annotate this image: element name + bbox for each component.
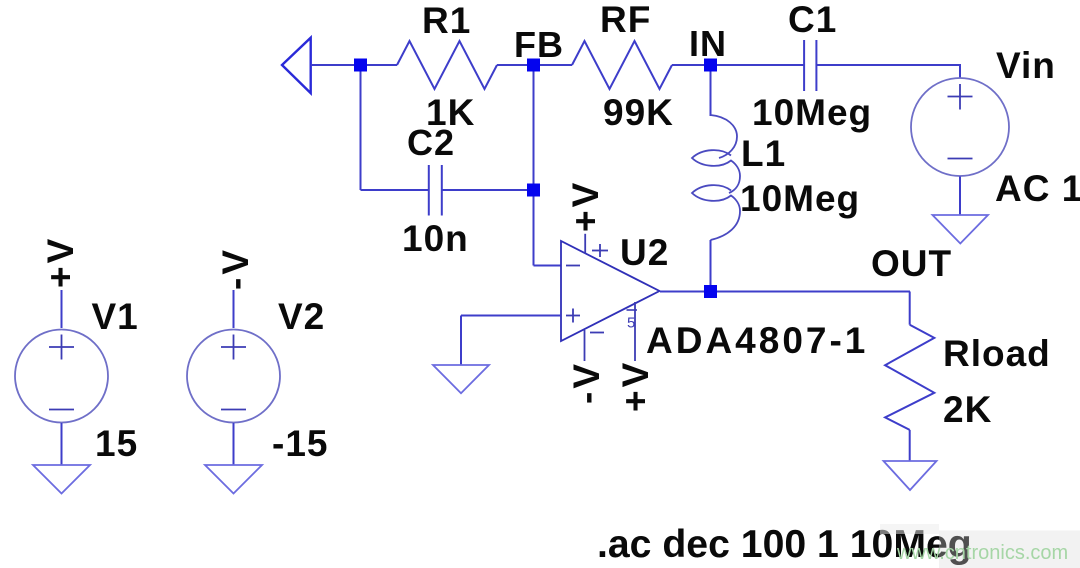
value 1K [426, 92, 475, 133]
label C1 [788, 0, 837, 40]
value AC 1 [995, 168, 1080, 209]
svg-text:-15: -15 [272, 423, 328, 464]
watermark text [896, 542, 1068, 564]
svg-text:IN: IN [689, 23, 727, 64]
op-amp PD pin 5 [634, 302, 636, 361]
value 2K [943, 389, 992, 430]
wire inverting input [534, 265, 562, 267]
label C2 [407, 122, 455, 163]
svg-text:C1: C1 [788, 0, 837, 40]
wire [711, 291, 911, 293]
wire [360, 71, 362, 190]
value 10n [402, 218, 469, 259]
svg-text:15: 15 [95, 423, 138, 464]
wire [497, 64, 534, 66]
spice directive .ac dec 100 1 10Meg [597, 523, 972, 566]
svg-text:99K: 99K [603, 92, 674, 133]
value 10Meg C1 [752, 92, 872, 133]
ground V1 [33, 465, 90, 494]
svg-text:www.cntronics.com: www.cntronics.com [896, 542, 1068, 564]
op-amp V- pin minus mark [590, 332, 604, 334]
wire [361, 64, 398, 66]
label IN [689, 23, 727, 64]
capacitor C1 [804, 40, 816, 91]
net label V- below op-amp [566, 361, 607, 404]
resistor Rload [885, 325, 934, 430]
wire output [660, 291, 711, 293]
node junction left [354, 59, 367, 72]
wire [361, 189, 429, 191]
svg-text:U2: U2 [620, 232, 669, 273]
svg-text:10Meg: 10Meg [740, 178, 860, 219]
ground Rload [884, 461, 937, 490]
ground Vin [933, 215, 989, 244]
op-amp V+ pin plus mark [592, 244, 608, 257]
voltage source Vin [911, 78, 1009, 176]
label Vin [996, 45, 1056, 86]
node C2 junction [527, 184, 540, 197]
net label V+ on V1 [40, 236, 81, 288]
inductor L1 [692, 115, 740, 240]
svg-text:R1: R1 [422, 0, 471, 41]
svg-text:2K: 2K [943, 389, 992, 430]
watermark background [880, 524, 1080, 568]
value 99K [603, 92, 674, 133]
svg-text:-V: -V [566, 361, 607, 404]
label V2 [278, 296, 325, 337]
svg-text:-V: -V [215, 247, 256, 290]
op-amp V- pin [584, 330, 586, 361]
svg-text:Rload: Rload [943, 333, 1051, 374]
wire [442, 189, 534, 191]
value 10Meg L1 [740, 178, 860, 219]
wire [534, 64, 573, 66]
svg-text:Vin: Vin [996, 45, 1056, 86]
svg-text:10n: 10n [402, 218, 469, 259]
ground arrow left (net 0) [282, 38, 311, 93]
op-amp V+ pin [584, 234, 586, 254]
svg-text:+V: +V [40, 236, 81, 288]
wire [61, 423, 63, 465]
wire [959, 64, 961, 78]
op-amp plus input mark [566, 309, 580, 323]
wire [233, 423, 235, 465]
wire [909, 430, 911, 461]
capacitor C2 [429, 165, 442, 216]
wire [311, 64, 361, 66]
wire [460, 316, 462, 366]
svg-text:+V: +V [615, 360, 656, 412]
wire L1 bottom [710, 240, 712, 292]
label OUT [871, 243, 952, 284]
label FB [514, 24, 564, 65]
wire L1 top [710, 71, 712, 116]
wire [61, 290, 63, 328]
wire [672, 64, 711, 66]
node OUT junction [704, 285, 717, 298]
node IN [704, 59, 717, 72]
wire [233, 290, 235, 328]
wire [959, 177, 961, 216]
voltage source V2 [187, 330, 280, 423]
value -15 [272, 423, 328, 464]
svg-text:AC 1: AC 1 [995, 168, 1080, 209]
resistor RF [572, 41, 672, 89]
ground V2 [205, 465, 262, 494]
op-amp U2 [561, 241, 660, 341]
node FB [527, 59, 540, 72]
svg-text:OUT: OUT [871, 243, 952, 284]
op-amp minus input mark [566, 265, 580, 267]
wire FB vertical [533, 71, 535, 266]
label V1 [92, 296, 139, 337]
svg-text:V1: V1 [92, 296, 139, 337]
svg-text:RF: RF [600, 0, 651, 40]
svg-text:L1: L1 [741, 133, 786, 174]
svg-text:ADA4807-1: ADA4807-1 [646, 320, 868, 361]
svg-text:+V: +V [565, 180, 606, 232]
voltage source V1 [15, 330, 108, 423]
svg-text:5: 5 [627, 315, 635, 332]
label RF [600, 0, 651, 40]
svg-text:C2: C2 [407, 122, 455, 163]
label ADA4807-1 [646, 320, 868, 361]
wire [711, 64, 805, 66]
label Rload [943, 333, 1051, 374]
wire [816, 64, 960, 66]
net label V+ on PD pin [615, 360, 656, 412]
label R1 [422, 0, 471, 41]
svg-text:V2: V2 [278, 296, 325, 337]
svg-text:10Meg: 10Meg [752, 92, 872, 133]
pin number 5 with overbar [627, 310, 638, 332]
value 15 [95, 423, 138, 464]
resistor R1 [397, 41, 497, 89]
wire noninverting input [461, 315, 561, 317]
ground op-amp input [433, 365, 489, 393]
net label V+ above op-amp [565, 180, 606, 232]
label L1 [741, 133, 786, 174]
net label V- on V2 [215, 247, 256, 290]
label U2 [620, 232, 669, 273]
wire [909, 292, 911, 325]
